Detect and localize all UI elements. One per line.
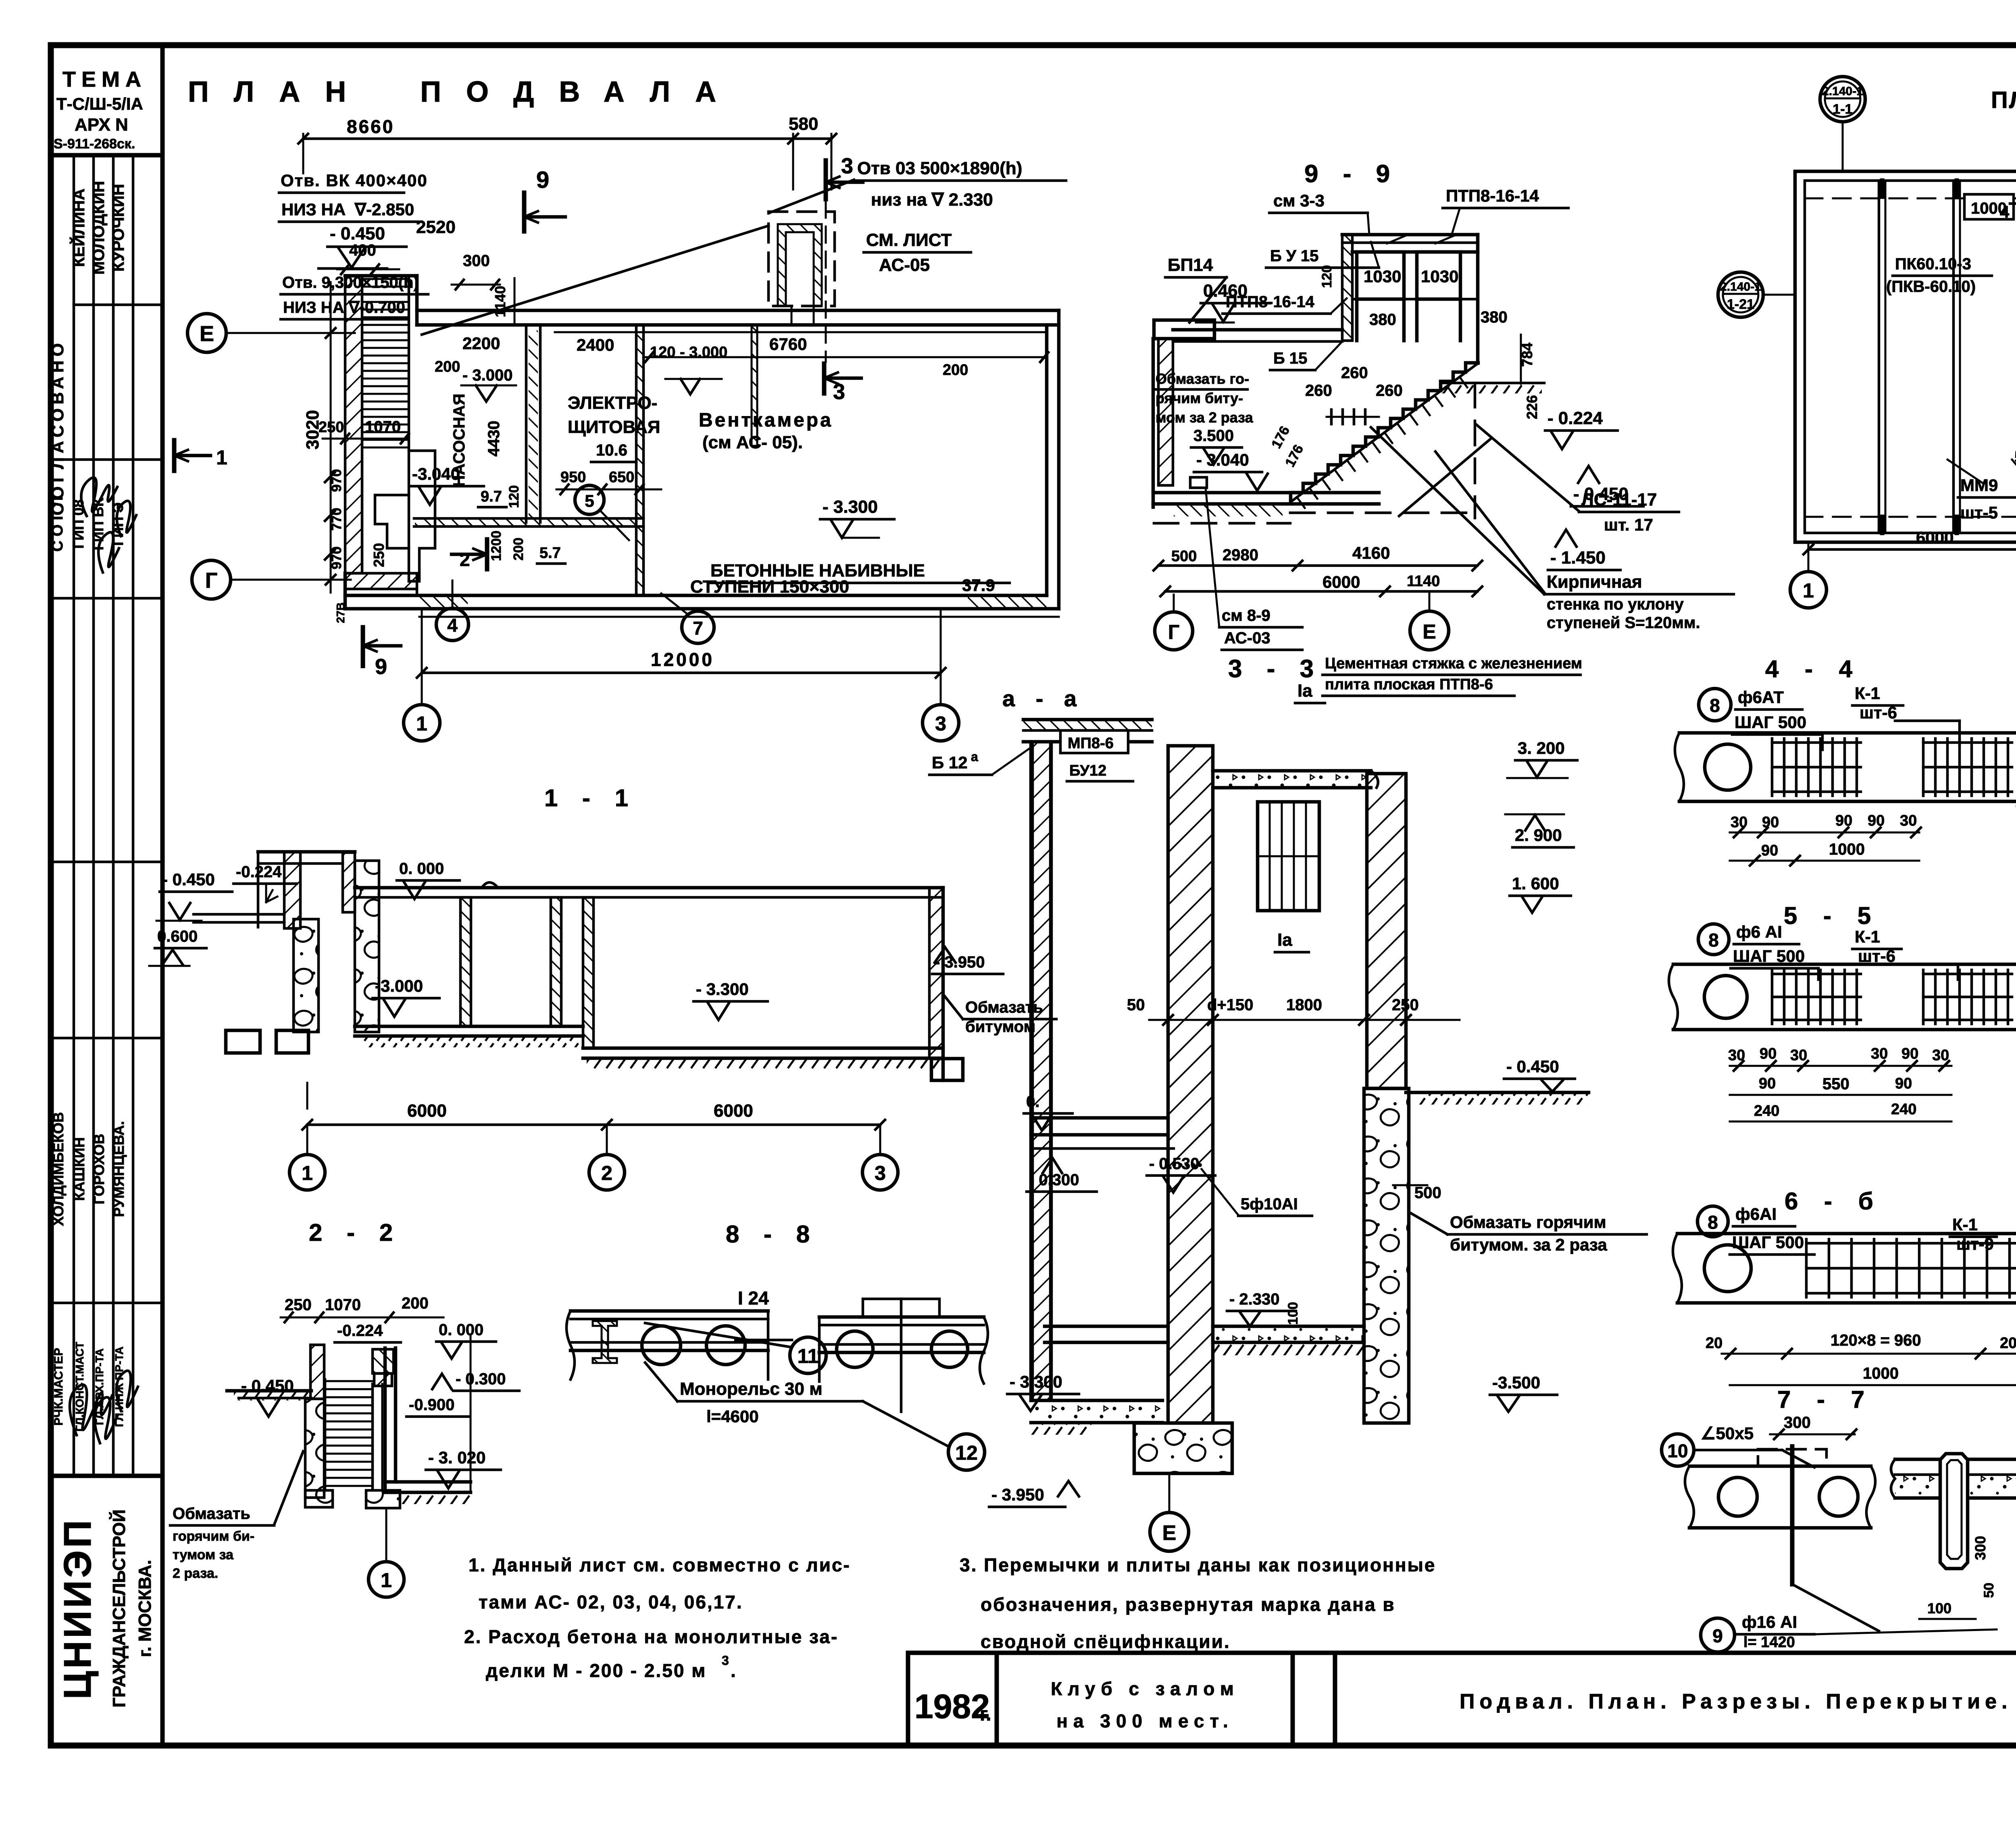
svg-text:ф16 АІ: ф16 АІ bbox=[1742, 1612, 1797, 1631]
svg-text:260: 260 bbox=[1341, 364, 1368, 382]
svg-text:3 - 3: 3 - 3 bbox=[1228, 655, 1322, 683]
svg-text:г.: г. bbox=[980, 1704, 991, 1725]
svg-text:ГЛ.ИНЖ ПР-ТА: ГЛ.ИНЖ ПР-ТА bbox=[113, 1346, 125, 1427]
sidebar vertical dividers bbox=[73, 155, 75, 1476]
svg-text:300: 300 bbox=[1784, 1414, 1811, 1431]
svg-text:ГИП ВК: ГИП ВК bbox=[90, 497, 106, 550]
svg-text:4 - 4: 4 - 4 bbox=[1765, 655, 1862, 682]
svg-text:2. 900: 2. 900 bbox=[1515, 826, 1562, 845]
svg-text:Іа: Іа bbox=[1277, 930, 1292, 950]
left vertical dim chain bbox=[330, 282, 332, 593]
left wall complex bbox=[284, 852, 300, 928]
svg-text:380: 380 bbox=[1481, 308, 1508, 326]
svg-text:3: 3 bbox=[935, 712, 946, 735]
signatures squiggles bbox=[81, 478, 117, 516]
svg-text:горячим би-: горячим би- bbox=[173, 1529, 254, 1544]
svg-text:6000: 6000 bbox=[714, 1101, 753, 1121]
svg-text:сводной спёцифнкации.: сводной спёцифнкации. bbox=[981, 1631, 1231, 1652]
svg-text:битумом. за 2 раза: битумом. за 2 раза bbox=[1450, 1235, 1607, 1254]
landing bbox=[409, 451, 435, 581]
svg-text:580: 580 bbox=[789, 114, 818, 134]
main walls bbox=[417, 309, 1059, 312]
pit with hatched U bbox=[768, 212, 835, 306]
svg-text:250: 250 bbox=[285, 1296, 312, 1314]
svg-text:ШАГ 500: ШАГ 500 bbox=[1733, 947, 1805, 965]
svg-text:200: 200 bbox=[943, 362, 968, 379]
0. slab bbox=[1031, 1116, 1168, 1120]
ventkamera partition right thin bbox=[752, 325, 757, 446]
svg-text:100: 100 bbox=[1927, 1600, 1951, 1617]
svg-text:Г: Г bbox=[205, 568, 218, 593]
outer rect bbox=[1795, 171, 2016, 542]
svg-text:рячим биту-: рячим биту- bbox=[1156, 390, 1243, 406]
svg-text:(ПКВ-60.10): (ПКВ-60.10) bbox=[1886, 278, 1976, 295]
svg-text:ММ9: ММ9 bbox=[1960, 476, 1998, 495]
svg-text:300: 300 bbox=[1972, 1536, 1989, 1560]
svg-text:2980: 2980 bbox=[1223, 546, 1258, 564]
svg-text:1000: 1000 bbox=[1863, 1365, 1899, 1382]
svg-text:1-1: 1-1 bbox=[1833, 102, 1852, 117]
svg-text:d+150: d+150 bbox=[1207, 996, 1254, 1014]
svg-text:ШАГ 500: ШАГ 500 bbox=[1732, 1233, 1804, 1252]
svg-text:0. 000: 0. 000 bbox=[399, 860, 444, 878]
signatures lower bbox=[70, 1385, 112, 1435]
svg-text:0.: 0. bbox=[1026, 1093, 1039, 1111]
svg-text:6000: 6000 bbox=[407, 1101, 447, 1121]
svg-text:плита плоская ПТП8-6: плита плоская ПТП8-6 bbox=[1325, 676, 1493, 693]
svg-text:2520: 2520 bbox=[416, 217, 456, 237]
bottom dims circles bbox=[307, 1124, 880, 1126]
svg-text:низ на ∇ 2.330: низ на ∇ 2.330 bbox=[871, 190, 993, 210]
svg-text:4: 4 bbox=[447, 615, 458, 636]
svg-text:Венткамера: Венткамера bbox=[699, 410, 833, 431]
window structure bbox=[1342, 233, 1478, 237]
leader diagonal to pit bbox=[422, 226, 768, 335]
svg-text:Б 12: Б 12 bbox=[932, 753, 968, 772]
right panel with plates bbox=[819, 1315, 984, 1319]
svg-text:1030: 1030 bbox=[1421, 267, 1458, 286]
svg-text:20: 20 bbox=[1706, 1335, 1722, 1352]
svg-text:10: 10 bbox=[1667, 1440, 1688, 1461]
svg-text:Подвал. План. Разрезы. Пере: Подвал. План. Разрезы. Перекрытие. bbox=[1460, 1690, 2012, 1713]
svg-text:1: 1 bbox=[1803, 579, 1814, 602]
svg-text:- 2.330: - 2.330 bbox=[1229, 1290, 1280, 1308]
svg-text:- 3.300: - 3.300 bbox=[823, 497, 878, 517]
svg-text:- 3.000: - 3.000 bbox=[462, 366, 513, 384]
svg-text:см 8-9: см 8-9 bbox=[1222, 607, 1270, 624]
svg-text:90: 90 bbox=[1901, 1045, 1918, 1062]
svg-text:2 - 2: 2 - 2 bbox=[309, 1219, 402, 1246]
svg-text:-0.224: -0.224 bbox=[337, 1322, 383, 1340]
svg-text:- 3.950: - 3.950 bbox=[935, 953, 985, 971]
window grate bbox=[1258, 802, 1319, 911]
right ground bbox=[1406, 1091, 1589, 1094]
TEMA box bbox=[51, 153, 162, 158]
svg-text:2.140-1: 2.140-1 bbox=[1720, 280, 1761, 293]
bottom 9 mark bbox=[361, 627, 365, 666]
svg-text:120: 120 bbox=[506, 485, 522, 508]
svg-text:250: 250 bbox=[319, 419, 344, 436]
svg-text:400: 400 bbox=[349, 241, 376, 259]
svg-text:20: 20 bbox=[2000, 1335, 2016, 1352]
svg-text:- 0.224: - 0.224 bbox=[1547, 408, 1603, 428]
svg-text:- 3.300: - 3.300 bbox=[1010, 1372, 1062, 1391]
svg-text:950: 950 bbox=[560, 469, 586, 486]
svg-text:6000: 6000 bbox=[1916, 528, 1954, 547]
svg-text:- 3.040: - 3.040 bbox=[1196, 450, 1249, 469]
svg-text:.: . bbox=[731, 1660, 736, 1681]
svg-text:Отв. ВК 400×400: Отв. ВК 400×400 bbox=[281, 171, 428, 190]
svg-text:РЧК.МАСТЕР: РЧК.МАСТЕР bbox=[52, 1348, 65, 1426]
svg-text:200: 200 bbox=[511, 538, 526, 561]
svg-text:ПЛАН ПОДВАЛА: ПЛАН ПОДВАЛА bbox=[188, 76, 741, 108]
svg-text:БП14: БП14 bbox=[1168, 255, 1213, 275]
grid circles E G bbox=[187, 314, 226, 352]
svg-text:650: 650 bbox=[609, 469, 634, 486]
svg-text:8 - 8: 8 - 8 bbox=[726, 1221, 818, 1248]
svg-text:СТУПЕНИ 150×300: СТУПЕНИ 150×300 bbox=[690, 577, 849, 597]
svg-text:120 - 3.000: 120 - 3.000 bbox=[650, 344, 727, 361]
svg-text:8: 8 bbox=[1708, 1212, 1718, 1233]
svg-text:3. 200: 3. 200 bbox=[1518, 739, 1565, 757]
svg-text:стенка по уклону: стенка по уклону bbox=[1547, 595, 1684, 613]
svg-text:Обмазать: Обмазать bbox=[173, 1505, 250, 1523]
svg-text:МП8-6: МП8-6 bbox=[1068, 735, 1114, 752]
svg-text:ПТП8-16-14: ПТП8-16-14 bbox=[1226, 293, 1315, 311]
svg-text:1800: 1800 bbox=[1286, 996, 1322, 1014]
svg-text:-0.900: -0.900 bbox=[409, 1396, 454, 1414]
svg-text:1200: 1200 bbox=[489, 531, 504, 561]
svg-text:2: 2 bbox=[601, 1162, 612, 1184]
svg-text:С О Г Л: С О Г Л bbox=[49, 497, 66, 552]
svg-text:200: 200 bbox=[402, 1294, 429, 1312]
svg-text:Клуб с залом: Клуб с залом bbox=[1051, 1678, 1239, 1699]
svg-text:Г: Г bbox=[1168, 621, 1179, 643]
svg-text:50: 50 bbox=[1127, 996, 1145, 1014]
svg-text:0. 000: 0. 000 bbox=[439, 1321, 483, 1339]
svg-text:- 3.300: - 3.300 bbox=[696, 980, 749, 999]
svg-text:МОЛОДКИН: МОЛОДКИН bbox=[90, 181, 108, 275]
svg-text:а - а: а - а bbox=[1002, 686, 1084, 711]
svg-text:- 3. 020: - 3. 020 bbox=[428, 1448, 485, 1467]
svg-text:250: 250 bbox=[371, 543, 387, 567]
svg-text:50: 50 bbox=[1981, 1583, 1997, 1598]
svg-text:5.7: 5.7 bbox=[539, 545, 561, 562]
svg-text:12: 12 bbox=[955, 1442, 978, 1464]
svg-text:СМ. ЛИСТ: СМ. ЛИСТ bbox=[866, 230, 952, 250]
svg-text:3: 3 bbox=[841, 154, 853, 178]
wall 2 + rubble column bbox=[1367, 774, 1406, 1088]
svg-text:тумом за: тумом за bbox=[173, 1547, 234, 1563]
left sidebar column bbox=[48, 45, 162, 1746]
svg-text:0.600: 0.600 bbox=[157, 928, 198, 945]
svg-text:- 0.450: - 0.450 bbox=[1506, 1057, 1559, 1076]
wall1 footing bbox=[1134, 1423, 1232, 1473]
svg-text:- 0.450: - 0.450 bbox=[162, 870, 215, 889]
main beam top bbox=[355, 886, 943, 890]
svg-text:1070: 1070 bbox=[325, 1296, 361, 1314]
svg-text:240: 240 bbox=[1891, 1101, 1916, 1118]
svg-text:30: 30 bbox=[1731, 814, 1747, 831]
svg-text:-3.500: -3.500 bbox=[1492, 1373, 1540, 1392]
svg-text:Обмазать го-: Обмазать го- bbox=[1156, 370, 1249, 387]
top slab between walls bbox=[1213, 769, 1371, 773]
svg-text:(см АС- 05).: (см АС- 05). bbox=[702, 433, 803, 452]
svg-text:5ф10АІ: 5ф10АІ bbox=[1241, 1195, 1298, 1213]
svg-text:тами АС- 02, 03, 04, 06,17.: тами АС- 02, 03, 04, 06,17. bbox=[479, 1592, 743, 1612]
1000 boxes bbox=[1964, 194, 2014, 219]
tall wall 1 bbox=[1168, 746, 1213, 1423]
svg-text:S-911-268ск.: S-911-268ск. bbox=[54, 136, 135, 152]
svg-text:100: 100 bbox=[1285, 1302, 1301, 1325]
svg-text:12000: 12000 bbox=[651, 649, 714, 670]
svg-text:ПК60.10-3: ПК60.10-3 bbox=[1895, 255, 1971, 273]
svg-text:90: 90 bbox=[1868, 812, 1885, 829]
svg-text:Обмазать горячим: Обмазать горячим bbox=[1450, 1213, 1606, 1232]
svg-text:ЭЛЕКТРО-: ЭЛЕКТРО- bbox=[568, 393, 657, 413]
svg-text:1. Данный лист см. совместно с: 1. Данный лист см. совместно с лис- bbox=[469, 1554, 851, 1575]
svg-text:- 0.300: - 0.300 bbox=[1029, 1171, 1079, 1189]
svg-text:- 0.450: - 0.450 bbox=[330, 224, 385, 243]
svg-text:Б У 15: Б У 15 bbox=[1270, 247, 1318, 265]
svg-text:1: 1 bbox=[381, 1569, 392, 1592]
svg-text:КУРОЧКИН: КУРОЧКИН bbox=[110, 184, 127, 272]
svg-text:30: 30 bbox=[1871, 1045, 1888, 1062]
svg-text:1000: 1000 bbox=[1829, 841, 1865, 858]
svg-text:2200: 2200 bbox=[462, 334, 500, 353]
svg-text:970: 970 bbox=[329, 547, 344, 570]
svg-text:ХОЛДИМБЕКОВ: ХОЛДИМБЕКОВ bbox=[50, 1112, 67, 1226]
svg-text:90: 90 bbox=[1895, 1075, 1912, 1092]
left wall + beam + floors bbox=[1154, 320, 1214, 339]
svg-text:1. 600: 1. 600 bbox=[1512, 874, 1559, 893]
left double circles bbox=[1820, 77, 1865, 122]
right wall bbox=[929, 888, 943, 1059]
svg-text:КАШКИН: КАШКИН bbox=[71, 1137, 87, 1201]
bottom floor + soil bbox=[385, 1480, 471, 1484]
svg-text:9 - 9: 9 - 9 bbox=[1304, 160, 1399, 188]
svg-text:- 3.950: - 3.950 bbox=[991, 1485, 1044, 1504]
left slab piece bbox=[1689, 1465, 1871, 1468]
svg-text:делки М - 200 - 2.50 м: делки М - 200 - 2.50 м bbox=[486, 1660, 706, 1681]
svg-text:Іа: Іа bbox=[1297, 681, 1312, 701]
svg-text:а: а bbox=[971, 749, 978, 764]
svg-text:Отв 03 500×1890(h): Отв 03 500×1890(h) bbox=[857, 158, 1022, 178]
bottom dim + circles bbox=[1808, 548, 2016, 551]
svg-text:ШАГ 500: ШАГ 500 bbox=[1735, 713, 1806, 732]
svg-text:260: 260 bbox=[1305, 382, 1332, 399]
svg-text:см 3-3: см 3-3 bbox=[1273, 191, 1325, 210]
svg-text:120: 120 bbox=[1319, 265, 1335, 288]
svg-text:200: 200 bbox=[435, 358, 460, 375]
svg-text:шт-5: шт-5 bbox=[1960, 503, 1998, 522]
mid hatched columns + wall bbox=[460, 897, 471, 1026]
svg-text:шт-6: шт-6 bbox=[1858, 947, 1895, 965]
svg-text:ПТП8-16-14: ПТП8-16-14 bbox=[1446, 186, 1539, 205]
rubble column + treads bbox=[305, 1399, 324, 1498]
svg-text:260: 260 bbox=[1376, 382, 1403, 399]
svg-text:- 0.300: - 0.300 bbox=[456, 1370, 506, 1388]
svg-text:27В: 27В bbox=[334, 602, 347, 623]
svg-text:8660: 8660 bbox=[347, 116, 394, 137]
svg-text:АРХ N: АРХ N bbox=[75, 115, 128, 135]
svg-text:90: 90 bbox=[1762, 814, 1779, 831]
svg-text:226: 226 bbox=[1524, 395, 1540, 419]
svg-text:Кирпичная: Кирпичная bbox=[1547, 572, 1642, 592]
ground at left bbox=[227, 1389, 311, 1393]
svg-text:1: 1 bbox=[416, 712, 427, 735]
footings bbox=[305, 1490, 333, 1507]
svg-text:ГИП 08: ГИП 08 bbox=[70, 499, 87, 549]
svg-text:ГЛ.КОНСТ.МАСТ: ГЛ.КОНСТ.МАСТ bbox=[73, 1342, 86, 1431]
svg-text:ф6АІ: ф6АІ bbox=[1735, 1205, 1776, 1223]
svg-text:АС-03: АС-03 bbox=[1224, 629, 1270, 647]
svg-text:ГЛ.АРХ.ПР-ТА: ГЛ.АРХ.ПР-ТА bbox=[93, 1348, 106, 1425]
svg-text:-3.040: -3.040 bbox=[412, 464, 460, 483]
svg-text:-3.000: -3.000 bbox=[375, 976, 423, 995]
svg-text:ГРАЖДАНСЕЛЬСТРОЙ: ГРАЖДАНСЕЛЬСТРОЙ bbox=[108, 1509, 129, 1708]
svg-text:К-1: К-1 bbox=[1952, 1215, 1978, 1234]
svg-text:на 300 мест.: на 300 мест. bbox=[1056, 1710, 1234, 1731]
svg-text:шт. 17: шт. 17 bbox=[1604, 515, 1653, 534]
svg-text:Б 15: Б 15 bbox=[1273, 350, 1307, 367]
floors two levels bbox=[355, 1025, 583, 1028]
svg-text:БУ12: БУ12 bbox=[1069, 762, 1106, 779]
svg-text:90: 90 bbox=[1835, 812, 1852, 829]
svg-text:240: 240 bbox=[1754, 1103, 1779, 1119]
svg-text:1: 1 bbox=[216, 446, 227, 469]
svg-text:ф6 АІ: ф6 АІ bbox=[1736, 922, 1782, 941]
svg-text:- 1.450: - 1.450 bbox=[1550, 548, 1606, 568]
svg-text:КЕЙЛИНА: КЕЙЛИНА bbox=[69, 189, 88, 267]
svg-text:6000: 6000 bbox=[1322, 572, 1360, 591]
svg-text:6760: 6760 bbox=[769, 335, 807, 354]
svg-text:3: 3 bbox=[875, 1162, 886, 1184]
svg-text:1140: 1140 bbox=[1407, 573, 1440, 590]
svg-text:500: 500 bbox=[1414, 1184, 1441, 1202]
svg-text:30: 30 bbox=[1932, 1047, 1949, 1064]
svg-text:обозначения, развернутая марка: обозначения, развернутая марка дана в bbox=[981, 1594, 1395, 1615]
bottom circles + 12000 dim bbox=[404, 705, 440, 741]
svg-text:l= 1420: l= 1420 bbox=[1743, 1634, 1795, 1651]
svg-text:970: 970 bbox=[329, 469, 344, 492]
left panel with I-beam bbox=[571, 1309, 768, 1313]
svg-text:1: 1 bbox=[302, 1162, 313, 1184]
svg-text:АС-05: АС-05 bbox=[879, 255, 930, 275]
svg-text:1070: 1070 bbox=[365, 418, 401, 436]
stair block bbox=[345, 276, 362, 573]
svg-text:3.500: 3.500 bbox=[1193, 427, 1234, 445]
svg-text:ТЕМА: ТЕМА bbox=[62, 67, 147, 92]
svg-text:9.7: 9.7 bbox=[481, 488, 502, 505]
svg-text:НИЗ НА: НИЗ НА bbox=[281, 200, 346, 219]
svg-text:Е: Е bbox=[200, 322, 214, 346]
svg-text:4160: 4160 bbox=[1352, 543, 1390, 562]
svg-text:ГОРОХОВ: ГОРОХОВ bbox=[91, 1134, 107, 1204]
svg-text:Монорельс 30 м: Монорельс 30 м bbox=[680, 1379, 823, 1399]
svg-text:ступеней S=120мм.: ступеней S=120мм. bbox=[1547, 614, 1700, 632]
svg-text:5 - 5: 5 - 5 bbox=[1784, 902, 1881, 929]
sidebar right edge bbox=[160, 45, 165, 1746]
svg-text:ЛС-11-17: ЛС-11-17 bbox=[1581, 490, 1657, 510]
circles and see-note bbox=[1155, 612, 1193, 650]
svg-text:2 раза.: 2 раза. bbox=[173, 1566, 218, 1581]
svg-text:мом за 2 раза: мом за 2 раза bbox=[1156, 409, 1254, 426]
svg-text:1030: 1030 bbox=[1364, 267, 1401, 286]
svg-text:8: 8 bbox=[1708, 930, 1719, 951]
svg-text:ЩИТОВАЯ: ЩИТОВАЯ bbox=[568, 417, 660, 437]
svg-text:250: 250 bbox=[1392, 996, 1419, 1014]
svg-text:ПЛАН ПЕРЕКРЫТИЯ ПОДВАЛА: ПЛАН ПЕРЕКРЫТИЯ ПОДВАЛА bbox=[1991, 87, 2016, 113]
svg-text:30: 30 bbox=[1790, 1047, 1807, 1064]
section mark 1 left bbox=[172, 440, 177, 471]
svg-text:Цементная стяжка с железнением: Цементная стяжка с железнением bbox=[1325, 655, 1582, 672]
svg-text:∇-2.850: ∇-2.850 bbox=[354, 200, 414, 219]
svg-text:11: 11 bbox=[798, 1345, 819, 1367]
svg-text:2.140-1: 2.140-1 bbox=[1822, 85, 1863, 98]
svg-text:Т-С/Ш-5/ІА: Т-С/Ш-5/ІА bbox=[56, 94, 143, 113]
svg-text:Е: Е bbox=[1162, 1521, 1177, 1545]
svg-text:l=4600: l=4600 bbox=[706, 1407, 759, 1426]
svg-text:битумом: битумом bbox=[965, 1018, 1035, 1036]
svg-text:2. Расход бетона на монолитные: 2. Расход бетона на монолитные за- bbox=[464, 1626, 838, 1647]
svg-text:К-1: К-1 bbox=[1855, 684, 1880, 703]
svg-text:4430: 4430 bbox=[485, 421, 503, 457]
svg-text:∠50х5: ∠50х5 bbox=[1701, 1424, 1754, 1443]
svg-text:8: 8 bbox=[1710, 695, 1720, 716]
svg-text:7: 7 bbox=[693, 618, 703, 639]
svg-text:3. Перемычки и плиты даны как: 3. Перемычки и плиты даны как позиционны… bbox=[960, 1554, 1436, 1575]
svg-text:К-1: К-1 bbox=[1855, 927, 1880, 946]
dashed pit boundary bbox=[1474, 383, 1477, 518]
svg-text:1-21: 1-21 bbox=[1727, 297, 1754, 312]
svg-text:90: 90 bbox=[1761, 842, 1778, 859]
svg-text:1 - 1: 1 - 1 bbox=[544, 784, 637, 811]
sidebar horizontal dividers bbox=[74, 304, 162, 306]
svg-text:9: 9 bbox=[536, 167, 549, 193]
svg-text:2: 2 bbox=[460, 549, 470, 570]
svg-text:9: 9 bbox=[375, 655, 387, 679]
svg-text:7 - 7: 7 - 7 bbox=[1777, 1386, 1874, 1413]
svg-text:120×8 = 960: 120×8 = 960 bbox=[1831, 1332, 1921, 1349]
svg-text:9: 9 bbox=[1712, 1625, 1723, 1646]
svg-text:4: 4 bbox=[2000, 202, 2010, 221]
svg-text:РУМЯНЦЕВА.: РУМЯНЦЕВА. bbox=[110, 1121, 127, 1217]
svg-text:СОГЛАСОВАНО: СОГЛАСОВАНО bbox=[48, 339, 67, 516]
svg-text:1982: 1982 bbox=[914, 1687, 990, 1725]
svg-text:ф6АТ: ф6АТ bbox=[1738, 688, 1784, 707]
inner thin walls bbox=[525, 325, 528, 522]
svg-text:90: 90 bbox=[1759, 1075, 1776, 1092]
svg-text:380: 380 bbox=[1369, 311, 1396, 329]
svg-text:ЦНИИЭП: ЦНИИЭП bbox=[56, 1518, 99, 1700]
svg-text:5: 5 bbox=[585, 491, 594, 510]
svg-text:770: 770 bbox=[329, 508, 344, 531]
svg-text:ГИП Э: ГИП Э bbox=[110, 502, 126, 546]
svg-text:г. МОСКВА.: г. МОСКВА. bbox=[135, 1560, 155, 1657]
svg-text:шт-9: шт-9 bbox=[1956, 1234, 1994, 1253]
svg-text:30: 30 bbox=[1900, 812, 1917, 829]
svg-text:І 24: І 24 bbox=[738, 1288, 769, 1309]
svg-text:6 - б: 6 - б bbox=[1785, 1188, 1883, 1215]
svg-text:2400: 2400 bbox=[577, 335, 614, 354]
staircase up-right bbox=[1291, 363, 1478, 502]
right piece with loop bbox=[1895, 1458, 2016, 1461]
bottom corner wall bbox=[345, 573, 417, 589]
svg-text:3: 3 bbox=[722, 1653, 729, 1668]
svg-text:10.6: 10.6 bbox=[596, 441, 627, 459]
svg-text:шт-6: шт-6 bbox=[1860, 703, 1897, 722]
